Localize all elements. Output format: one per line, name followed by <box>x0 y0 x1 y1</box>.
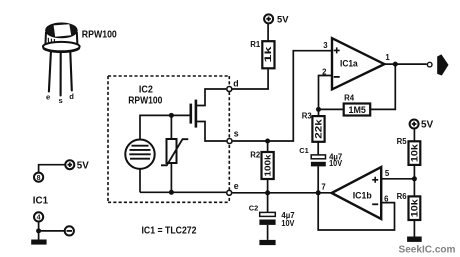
svg-text:C2: C2 <box>249 204 258 213</box>
svg-text:IC2: IC2 <box>139 85 153 96</box>
svg-text:R3: R3 <box>302 112 313 121</box>
svg-text:10V: 10V <box>329 159 343 168</box>
svg-text:IC1a: IC1a <box>340 59 358 69</box>
svg-text:e: e <box>46 92 50 101</box>
svg-text:RPW100: RPW100 <box>128 96 162 107</box>
svg-text:4: 4 <box>37 215 41 222</box>
svg-text:5V: 5V <box>277 14 289 25</box>
svg-text:10k: 10k <box>409 199 419 217</box>
svg-text:10V: 10V <box>281 219 295 228</box>
svg-text:100k: 100k <box>264 154 273 177</box>
svg-text:R1: R1 <box>250 40 261 49</box>
svg-text:IC1b: IC1b <box>353 191 373 201</box>
svg-text:7: 7 <box>321 183 325 192</box>
svg-text:1: 1 <box>385 53 390 62</box>
svg-text:1k: 1k <box>263 45 274 62</box>
svg-text:10k: 10k <box>409 144 419 162</box>
svg-text:R2: R2 <box>250 151 261 160</box>
svg-text:IC1 = TLC272: IC1 = TLC272 <box>142 224 197 236</box>
svg-text:R5: R5 <box>397 137 408 146</box>
svg-text:5: 5 <box>385 169 390 178</box>
svg-text:d: d <box>233 79 238 89</box>
svg-text:s: s <box>234 128 239 138</box>
svg-text:22k: 22k <box>313 119 323 139</box>
svg-text:8: 8 <box>37 175 41 182</box>
svg-text:5V: 5V <box>77 161 89 172</box>
svg-text:e: e <box>234 181 239 191</box>
svg-text:SeekIC.com: SeekIC.com <box>399 245 456 256</box>
svg-text:1M5: 1M5 <box>349 105 366 115</box>
svg-text:RPW100: RPW100 <box>82 29 117 40</box>
svg-text:s: s <box>59 96 63 105</box>
svg-text:R4: R4 <box>344 93 355 102</box>
svg-text:C1: C1 <box>299 146 308 155</box>
svg-text:IC1: IC1 <box>33 195 48 206</box>
svg-text:5V: 5V <box>421 120 434 131</box>
svg-text:R6: R6 <box>397 192 408 201</box>
svg-text:d: d <box>69 92 74 101</box>
svg-text:3: 3 <box>323 41 328 50</box>
